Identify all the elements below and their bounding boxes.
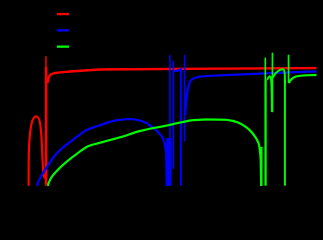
red curve: resonant hump at left (29, 116, 45, 186)
blue curve: up-spike 2 (173, 61, 175, 169)
legend: green line sample (57, 46, 69, 48)
blue curve: wide resonance dip column (166, 138, 171, 186)
red curve: recovery and flat asymptote (48, 68, 317, 83)
green curve: rising low-frequency branch (48, 120, 227, 186)
green curve: dip column 3 (284, 80, 286, 186)
green curve: dip column 2 (264, 80, 266, 186)
blue curve: plateau end diving into resonance (132, 119, 167, 186)
blue curve: up-spike 3 (184, 55, 186, 142)
green curve: inter-resonance hump (273, 69, 285, 84)
blue curve: recovery and flat asymptote (185, 72, 316, 116)
red curve: resonance dip column (45, 67, 48, 186)
blue curve: rising low-frequency branch (37, 119, 132, 186)
blue curve: inter-resonance segment near red line (174, 70, 181, 72)
red curve: dark anti-aliased foot of dip column (45, 185, 49, 187)
green curve: up-spike 1 (265, 58, 267, 82)
red curve: resonance up-spike (45, 56, 47, 68)
green curve: up-spike 2 (272, 53, 274, 112)
green curve: plateau end diving into resonance (227, 120, 261, 186)
green curve: segment after dip 2 with mini-dip (267, 76, 272, 112)
green curve: dip column 1 (260, 147, 263, 186)
green curve: recovery and flat asymptote (289, 75, 317, 83)
green curve: up-spike 3 (288, 55, 290, 83)
legend: blue line sample (57, 29, 69, 31)
blue curve: narrow dip column (180, 68, 182, 186)
legend: red line sample (57, 13, 69, 15)
blue curve: up-spike 1 (169, 55, 171, 139)
